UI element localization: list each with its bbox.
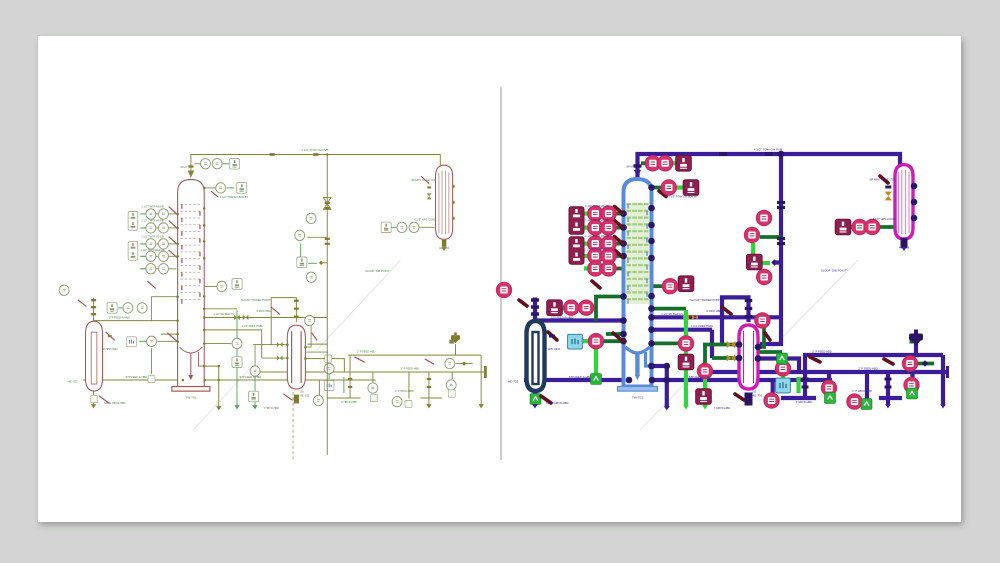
- wire drop 912: [910, 372, 914, 379]
- wire bright link 6: [751, 243, 755, 257]
- svg-text:1 1/4" PRES TWBL: 1 1/4" PRES TWBL: [242, 325, 264, 328]
- valve HE-701 top: [271, 307, 280, 314]
- wire assembly 888: [886, 372, 890, 406]
- svg-text:SP+0": SP+0": [626, 165, 633, 169]
- instrument TI-a: [201, 159, 211, 169]
- flange HE-703 gold: [885, 186, 891, 189]
- wire assembly 805: [803, 372, 807, 398]
- instrument row1a: [146, 209, 156, 219]
- svg-text:SP+0": SP+0": [180, 166, 187, 169]
- flange assembly 888b: [885, 386, 892, 389]
- instrument TI-b: [658, 156, 673, 171]
- wire bright row 3: [584, 242, 591, 246]
- arrow drain 2: [426, 404, 431, 408]
- wire bright row 1: [584, 212, 591, 216]
- wire assembly 805: [349, 372, 351, 398]
- wire bright link 7: [781, 372, 785, 379]
- wire vertical main lower (left only): [326, 344, 328, 455]
- instrument row4b: [159, 251, 169, 261]
- valve HE-702 drain: [99, 396, 109, 403]
- wire cluster stub: [321, 262, 327, 264]
- instrument row1a: [588, 206, 603, 221]
- instrument green 1: [591, 374, 602, 385]
- svg-text:P HBYD-HBD: P HBYD-HBD: [341, 400, 357, 404]
- instrument LT: [147, 336, 157, 346]
- flange top header 1: [270, 153, 275, 156]
- instrument mid3: [250, 366, 260, 376]
- flange riser 1b: [325, 207, 330, 209]
- wire HE-702 drain: [533, 391, 537, 406]
- valve HE-701 top: [722, 307, 731, 314]
- instrument blue 1: [568, 334, 583, 349]
- svg-text:SLOOP "DIB POINT": SLOOP "DIB POINT": [365, 269, 390, 273]
- wire green HE-701 feed a: [703, 343, 739, 347]
- wire green nozzle 1: [641, 161, 648, 165]
- instrument row2a: [146, 223, 156, 233]
- instrument row4a: [588, 248, 603, 263]
- flange HE-702 b: [91, 306, 96, 308]
- instrument clusterC: [306, 272, 316, 282]
- wire HE-701 outlet: [759, 359, 799, 373]
- instrument clusterB: [744, 227, 759, 242]
- instrument green 2: [777, 353, 788, 364]
- column tray zone: [180, 204, 202, 304]
- instrument bottom4: [446, 380, 456, 390]
- valve gold feed a: [727, 341, 736, 348]
- valve HE-702 inlet: [78, 300, 86, 306]
- instrument HE-702a: [123, 303, 133, 313]
- valve below PT: [211, 191, 218, 196]
- arrow HE-703: [441, 247, 446, 251]
- valve left column mid: [592, 281, 600, 288]
- wire bright row 1: [140, 213, 146, 215]
- svg-text:SOUR HBYD-HBD: SOUR HBYD-HBD: [546, 401, 569, 405]
- instrument box drop: [678, 354, 694, 370]
- instrument row5b: [159, 264, 169, 274]
- wire instrument row 5: [585, 267, 622, 271]
- wire riser 805: [803, 355, 807, 372]
- instrument HE-702a: [564, 300, 579, 315]
- flange riser 2b: [325, 243, 330, 245]
- svg-text:TW-701: TW-701: [186, 395, 197, 399]
- vessel HE-703: [895, 165, 913, 239]
- vessel HE-701: [287, 325, 305, 389]
- instrument box HE-702: [107, 303, 117, 314]
- arrow drain 2: [885, 404, 891, 408]
- valve main C hand: [425, 359, 434, 364]
- wire green left 3: [606, 332, 623, 336]
- instrument box HE-703: [835, 219, 851, 235]
- svg-text:SP HPS TO HE-703: SP HPS TO HE-703: [411, 178, 435, 182]
- valve gold feed a: [277, 342, 283, 347]
- svg-text:2" P FEED-HBD: 2" P FEED-HBD: [401, 366, 420, 370]
- wire drop 712: [261, 330, 263, 358]
- instrument bottom2: [821, 380, 836, 395]
- instrument bottom2: [368, 383, 378, 393]
- svg-text:1 1/2" TWTR HS-BB: 1 1/2" TWTR HS-BB: [141, 219, 164, 222]
- wire instrument row 2: [585, 226, 622, 230]
- svg-text:155: 155: [300, 390, 305, 393]
- HE-701 top flange b: [745, 307, 753, 310]
- instrument TI-a: [645, 156, 660, 171]
- svg-text:1 1/2" TWTR HS-AB: 1 1/2" TWTR HS-AB: [585, 204, 609, 208]
- wire bright row 2: [140, 227, 146, 229]
- flange column riser: [188, 165, 193, 167]
- HE-701 top flange a: [294, 300, 299, 302]
- column nozzles: [620, 184, 655, 369]
- flange top header 2: [765, 152, 773, 156]
- instrument box FT-2: [237, 183, 247, 194]
- wire green lateral: [652, 341, 680, 345]
- valve handwheel: [449, 340, 454, 344]
- column downcomers: [182, 204, 200, 303]
- arrow bright A: [234, 405, 239, 409]
- wire bright link 5: [848, 225, 854, 229]
- instrument bottom3: [392, 396, 402, 406]
- wire drop 829: [372, 372, 374, 382]
- wire drop 943: [941, 355, 945, 406]
- instrument blue 2: [324, 381, 334, 391]
- instrument mid1: [662, 279, 677, 294]
- wire assembly 888: [428, 372, 430, 406]
- HE-703 bottom nozzle: [442, 240, 447, 247]
- wire cluster stub: [775, 260, 782, 264]
- main C end cap: [484, 366, 487, 378]
- wire green elbow: [652, 307, 686, 311]
- instrument row5a: [146, 264, 156, 274]
- instrument box FT-1: [230, 158, 240, 169]
- svg-text:2" P FEED-HBD: 2" P FEED-HBD: [858, 367, 877, 371]
- arrow bright B: [702, 405, 708, 409]
- wire green HE-701 feed a: [253, 344, 287, 346]
- wire bright link 4: [675, 185, 683, 189]
- arrow drain 1: [664, 406, 670, 410]
- instrument row4a: [146, 251, 156, 261]
- instrument TI-b: [212, 159, 222, 169]
- wire green HE-701 gsq: [759, 350, 782, 354]
- valve HE-702 drain: [541, 396, 551, 403]
- valve HE-701 bottom: [284, 394, 293, 400]
- wire riser 805: [349, 355, 351, 372]
- instrument green 4: [405, 400, 412, 407]
- flange HE-703 gold: [427, 186, 431, 188]
- instrument PT: [216, 183, 226, 193]
- instrument row2b: [159, 223, 169, 233]
- wire green manifold HE-702: [596, 297, 623, 322]
- flange riser 1b: [777, 206, 785, 209]
- svg-text:4 1/2" RD BLW HS: 4 1/2" RD BLW HS: [661, 312, 683, 316]
- instrument green 5: [907, 388, 918, 399]
- instrument row3b: [601, 236, 616, 251]
- flange column riser: [634, 164, 642, 167]
- wire HE-702 riser: [93, 298, 95, 321]
- instrument mid1: [217, 281, 227, 291]
- instrument clusterA: [756, 210, 771, 225]
- flange HE-702 a: [531, 298, 539, 301]
- vessel HE-703: [436, 165, 453, 239]
- vessel HE-701: [739, 325, 758, 389]
- wire bright drop B: [254, 371, 256, 406]
- arrow drain 3: [940, 404, 946, 408]
- joint header T: [778, 151, 785, 158]
- flange assembly 805a: [348, 378, 353, 380]
- instrument box cluster: [747, 254, 763, 270]
- flange top header 1: [719, 152, 727, 156]
- wire bright link 6b: [308, 262, 317, 264]
- wire green drop 705: [703, 345, 707, 369]
- wire drop 867: [865, 372, 869, 399]
- instrument blue 1: [127, 337, 137, 347]
- instrument valve B: [445, 358, 455, 368]
- joint main A left: [626, 377, 633, 384]
- flange riser 2b: [777, 242, 785, 245]
- wire bottom rail 2: [420, 397, 442, 399]
- instrument box mid: [232, 279, 242, 290]
- wire green left 4: [602, 339, 623, 343]
- valve HE-703 inlet: [421, 176, 429, 183]
- instrument mid3: [697, 363, 712, 378]
- wire instrument row 3: [585, 242, 622, 246]
- joint main A drain: [664, 377, 671, 384]
- vessel TW-701 funnel stem: [188, 352, 204, 380]
- instrument tallbox 1: [128, 211, 138, 230]
- svg-text:155: 155: [752, 390, 757, 394]
- wire column lateral 1: [205, 316, 328, 318]
- valve gold feed b: [727, 354, 736, 361]
- instrument green 4: [861, 399, 872, 410]
- valve handwheel: [910, 340, 915, 344]
- wire drop 867: [408, 372, 410, 398]
- svg-text:2" P HBYD-HBD: 2" P HBYD-HBD: [395, 389, 414, 393]
- wire bottom rail 1: [781, 396, 816, 400]
- instrument bottom3: [847, 394, 862, 409]
- instrument bottom1: [764, 393, 779, 408]
- wire valve stem 916: [455, 344, 457, 355]
- valve gold HE-703: [427, 193, 432, 199]
- wire bright link 3: [671, 161, 678, 165]
- valve HE-703 inlet: [880, 176, 888, 183]
- svg-text:1 1/4" PRES TWBL: 1 1/4" PRES TWBL: [691, 324, 714, 328]
- instrument HE-702 drain: [530, 394, 541, 405]
- wire bright link 8: [796, 377, 800, 393]
- wire column lateral 2: [652, 328, 712, 332]
- wire bottom rail 1: [327, 397, 360, 399]
- instrument box HE-703: [381, 222, 391, 233]
- flange riser 1a: [325, 202, 330, 204]
- valve gold feed b: [277, 356, 283, 361]
- svg-text:2" P HBYD-HBD: 2" P HBYD-HBD: [852, 389, 872, 393]
- valve row 4 hand: [615, 250, 623, 257]
- flange riser 2a: [325, 238, 330, 240]
- svg-text:2" P FEED-HBD: 2" P FEED-HBD: [357, 350, 376, 354]
- wire drop 943: [480, 355, 482, 406]
- wire bottom main B: [803, 353, 943, 357]
- wire valve stem 916: [914, 344, 918, 355]
- instrument row3a: [588, 236, 603, 251]
- valve gold pair b: [692, 315, 698, 321]
- control valve FV: [909, 330, 923, 347]
- svg-text:4 1/2" HPS COND: 4 1/2" HPS COND: [873, 217, 896, 221]
- vessel TW-701 base flange: [618, 387, 658, 392]
- svg-text:4 1/2" TOW OH PVB: 4 1/2" TOW OH PVB: [754, 148, 783, 152]
- instrument tallbox 1: [569, 207, 584, 235]
- instrument green 2: [325, 355, 332, 362]
- flange riser 2a: [777, 237, 785, 240]
- instrument green 3: [370, 394, 377, 401]
- HE-701 top flange c: [745, 315, 753, 318]
- valve row 1 hand: [169, 207, 177, 214]
- wire HE-702 drain: [93, 391, 95, 406]
- right vivid diagram: [496, 148, 947, 431]
- instrument box FT-2: [683, 180, 699, 196]
- wire vertical main: [760, 154, 781, 344]
- instrument blue 2: [776, 378, 791, 393]
- fold mark: [193, 260, 400, 430]
- instrument PT: [661, 180, 676, 195]
- wire green nozzle 3: [205, 285, 219, 287]
- svg-text:HE-702: HE-702: [68, 379, 78, 383]
- main C end cap: [946, 366, 949, 378]
- wire bottom main B: [348, 354, 481, 356]
- instrument row3a: [146, 239, 156, 249]
- wire drop 712: [710, 330, 714, 358]
- svg-text:T HBYD-HBD: T HBYD-HBD: [263, 406, 279, 410]
- column nozzles: [176, 187, 205, 368]
- instrument bottom4: [904, 377, 919, 392]
- svg-text:1 1/2" TOW OH BLW-BY: 1 1/2" TOW OH BLW-BY: [220, 195, 248, 199]
- wire vertical main: [307, 154, 327, 344]
- wire green drop 705: [254, 345, 256, 368]
- svg-text:T HBYD-HBD: T HBYD-HBD: [714, 406, 730, 410]
- instrument HE-701 right: [324, 363, 334, 373]
- valve gold pair a: [234, 315, 240, 321]
- divider line: [500, 87, 502, 460]
- wire bright row 5: [140, 268, 146, 270]
- vessel TW-701 dish: [180, 347, 203, 353]
- flange assembly 888b: [427, 386, 432, 388]
- fitting 925: [462, 361, 466, 365]
- valve row 2 hand: [169, 221, 177, 228]
- instrument mid2: [232, 338, 242, 348]
- HE-701 bottom nozzle: [745, 393, 753, 406]
- valve gold HE-703: [885, 192, 892, 201]
- wire instrument row 4: [141, 255, 176, 257]
- wire bright link 1: [118, 307, 127, 309]
- valve HE-701 right: [765, 333, 770, 340]
- column downcomers: [628, 204, 647, 304]
- HE-701 bottom nozzle: [294, 395, 299, 404]
- instrument box drop: [232, 357, 242, 368]
- fitting cluster: [771, 259, 778, 266]
- wire green HE-701 feed b: [262, 357, 288, 359]
- flange HE-702 side: [108, 335, 112, 337]
- vessel TW-701 funnel stem: [635, 352, 652, 380]
- instrument mid2: [678, 336, 693, 351]
- arrow HE-702: [91, 404, 96, 408]
- svg-text:1 1/2" TOW OH BLW-BY: 1 1/2" TOW OH BLW-BY: [668, 195, 698, 199]
- svg-text:STP FEED 4+HBD: STP FEED 4+HBD: [551, 316, 574, 320]
- valve left column mid: [148, 281, 156, 288]
- valve row 3 hand: [169, 237, 177, 244]
- joint main A mid: [203, 379, 205, 382]
- wire bright link 2: [139, 340, 147, 342]
- instrument clusterA: [306, 213, 316, 223]
- instrument row3b: [159, 239, 169, 249]
- joint drain elbow: [664, 363, 671, 370]
- instrument HE-703a: [852, 219, 867, 234]
- svg-text:SLOOP "DIB POINT": SLOOP "DIB POINT": [821, 269, 847, 273]
- riser reducer cone: [188, 170, 195, 177]
- HE-701 side nozzles: [736, 341, 762, 362]
- valve main B hand: [355, 357, 365, 362]
- wire HE-701 top feed: [271, 298, 296, 346]
- vessel HE-702: [527, 321, 545, 391]
- vessel TW-701 shell: [178, 179, 205, 386]
- wire bright link 4: [227, 187, 235, 189]
- HE-701 top flange b: [294, 308, 299, 310]
- wire instrument row 1: [141, 213, 176, 215]
- wire green HE-701 gsq: [306, 351, 328, 353]
- svg-text:STP FEED 4+HBD: STP FEED 4+HBD: [689, 375, 712, 379]
- flange HE-702 side: [549, 335, 555, 338]
- wire green cluster2: [307, 236, 327, 238]
- wire green elbow: [205, 308, 237, 310]
- HE-701 top flange a: [745, 299, 753, 302]
- svg-text:SOUR HBYD-HBD: SOUR HBYD-HBD: [104, 401, 126, 405]
- wire instrument row 1: [585, 212, 622, 216]
- instrument LT: [588, 334, 603, 349]
- wire bright drop A: [684, 310, 688, 406]
- fold mark: [640, 260, 858, 430]
- instrument box FT-1: [676, 156, 692, 172]
- left faint diagram: [59, 148, 485, 462]
- svg-text:STP FEED 4+HBD: STP FEED 4+HBD: [126, 375, 148, 379]
- svg-text:SLOOP "TOWER POINT": SLOOP "TOWER POINT": [690, 298, 722, 302]
- instrument green 5: [448, 390, 455, 397]
- fitting 925: [922, 360, 929, 367]
- svg-text:1 1/2" TWTR HS-BB: 1 1/2" TWTR HS-BB: [585, 218, 609, 222]
- wire instrument row 2: [141, 227, 176, 229]
- HE-703 side nozzles: [911, 183, 918, 222]
- wire bright row 4: [140, 255, 146, 257]
- svg-text:HE-701: HE-701: [300, 393, 310, 397]
- wire bright link 3: [223, 163, 229, 165]
- valve main B hand: [810, 357, 820, 362]
- wire bright row 3: [140, 243, 146, 245]
- flange HE-702 b: [531, 305, 539, 308]
- wire column drain lateral: [204, 366, 219, 408]
- HE-701 top flange c: [294, 316, 299, 318]
- arrow drain 1: [216, 406, 221, 410]
- wire column lateral 1: [652, 315, 781, 319]
- instrument row1b: [159, 209, 169, 219]
- wire overhead header: [638, 154, 901, 177]
- wire valve outlet stub: [916, 362, 934, 366]
- arrow bright B: [252, 405, 257, 409]
- instrument row5a: [588, 261, 603, 276]
- svg-text:4 1/2" HPS COND: 4 1/2" HPS COND: [414, 217, 436, 221]
- column tray zone: [626, 204, 649, 304]
- wire HE-702 to column: [535, 318, 623, 322]
- valve below PT: [659, 191, 666, 197]
- wire drop 772: [771, 380, 775, 396]
- wire HE-702 riser: [533, 298, 537, 321]
- valve row 2 hand: [615, 221, 623, 228]
- flange assembly 888a: [885, 378, 892, 381]
- wire bright row 5: [584, 266, 591, 270]
- wire instrument row 4: [585, 254, 622, 258]
- valve HE-701 bottom: [735, 394, 744, 400]
